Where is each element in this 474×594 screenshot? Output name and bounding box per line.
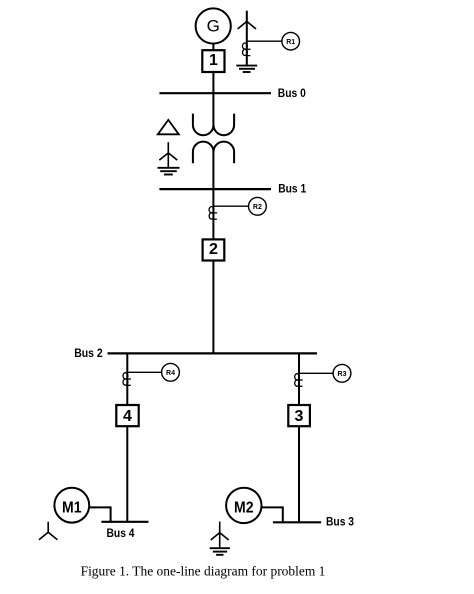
- svg-text:Figure 1. The one-line diagram: Figure 1. The one-line diagram for probl…: [81, 564, 326, 579]
- svg-text:R1: R1: [286, 39, 295, 46]
- svg-text:Bus 1: Bus 1: [278, 182, 306, 196]
- wire breaker 3 to Bus 3: [298, 427, 300, 523]
- svg-text:R2: R2: [253, 204, 262, 211]
- svg-text:G: G: [207, 17, 220, 36]
- relay R1: [282, 32, 300, 50]
- wire breaker 2 to Bus 2: [212, 261, 214, 354]
- breaker box 4: [116, 405, 138, 426]
- breaker box 1: [202, 50, 224, 72]
- CT curl at R4: [123, 373, 131, 386]
- svg-text:Bus 0: Bus 0: [278, 86, 306, 100]
- wire breaker 4 to Bus 4: [126, 427, 128, 522]
- wye symbol (generator winding): [238, 21, 256, 29]
- Bus 2: [108, 352, 318, 354]
- relay R2: [249, 197, 267, 215]
- svg-text:M2: M2: [234, 500, 254, 517]
- wire Bus 2 to breaker 4 (left feeder): [126, 353, 128, 405]
- svg-text:Bus 3: Bus 3: [326, 515, 354, 529]
- svg-text:Bus 4: Bus 4: [107, 526, 135, 540]
- svg-text:Bus 2: Bus 2: [74, 346, 103, 360]
- CT curl at R3: [295, 374, 303, 387]
- wye symbol (M2 winding): [211, 522, 229, 549]
- grounding coil at generator neutral: [243, 43, 251, 56]
- CT curl at R2: [209, 207, 217, 220]
- wire Bus 1 to breaker 2: [212, 189, 214, 239]
- ground (generator neutral): [236, 66, 257, 72]
- motor M2 circle: [226, 488, 261, 523]
- wire M1 to Bus 4: [89, 507, 110, 521]
- generator neutral lead: [246, 11, 248, 66]
- wye symbol (secondary connection): [159, 142, 177, 168]
- svg-text:1: 1: [209, 52, 218, 69]
- wire breaker 1 to transformer top (through Bus 0): [212, 72, 214, 129]
- svg-text:R3: R3: [338, 371, 347, 378]
- generator G1 circle: [196, 8, 231, 43]
- svg-text:M1: M1: [62, 499, 82, 516]
- wire transformer secondary to Bus 1: [212, 148, 214, 189]
- wye symbol (M1 winding): [39, 522, 57, 540]
- svg-text:2: 2: [209, 241, 218, 258]
- wire G to breaker 1: [212, 44, 214, 51]
- Bus 0: [159, 92, 271, 94]
- wire to relay R4: [127, 371, 161, 373]
- breaker box 2: [203, 239, 225, 260]
- Bus 1: [159, 188, 271, 190]
- transformer T1 primary winding: [193, 114, 234, 136]
- svg-text:4: 4: [123, 408, 132, 425]
- relay R3: [333, 364, 351, 382]
- wire to relay R3: [299, 372, 333, 374]
- wire M2 to Bus 3: [262, 507, 283, 522]
- delta symbol (primary connection): [158, 120, 179, 134]
- relay R4: [162, 363, 180, 381]
- svg-text:R4: R4: [166, 370, 175, 377]
- Bus 4: [101, 521, 148, 523]
- wire Bus 2 to breaker 3 (right feeder): [298, 353, 300, 405]
- svg-text:3: 3: [295, 408, 304, 425]
- ground (M2 neutral): [210, 548, 230, 555]
- ground (transformer neutral): [158, 168, 180, 175]
- breaker box 3: [288, 405, 310, 426]
- Bus 3: [273, 521, 321, 523]
- motor M1 circle: [54, 488, 89, 523]
- transformer T1 secondary winding: [193, 142, 234, 164]
- wire to relay R1: [247, 40, 282, 42]
- wire to relay R2: [213, 205, 248, 207]
